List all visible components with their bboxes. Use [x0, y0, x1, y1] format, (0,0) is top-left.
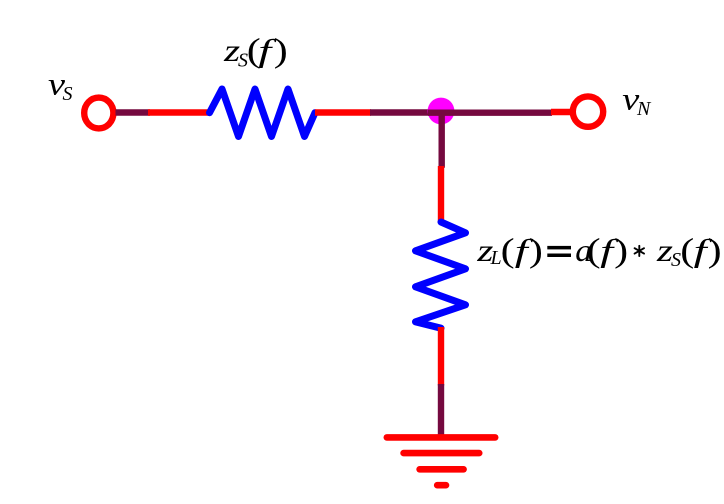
- wire (red stub to vN terminal): [551, 109, 571, 115]
- svg-text:S: S: [63, 83, 73, 105]
- resistor zS: [210, 89, 316, 137]
- svg-text:(: (: [587, 233, 601, 270]
- wire (red segment below resistor zL): [438, 327, 444, 386]
- terminal vS (source terminal circle): [84, 98, 113, 129]
- node junction dot: [428, 98, 455, 125]
- terminal vN (output terminal circle): [573, 96, 603, 126]
- wire (maroon segment to ground): [438, 384, 444, 435]
- svg-text:): ): [274, 32, 288, 69]
- resistor zL: [416, 222, 466, 328]
- svg-text:): ): [529, 233, 543, 270]
- wire (red segment above resistor zL): [438, 166, 444, 223]
- node label vS: [48, 66, 73, 106]
- label zL(f) = a(f) * zS(f): [476, 232, 722, 271]
- svg-text:): ): [708, 233, 722, 270]
- svg-text:): ): [614, 233, 628, 270]
- ground: [387, 437, 495, 485]
- svg-text:(: (: [501, 233, 515, 270]
- wire (maroon segment into node): [370, 109, 430, 115]
- wire (red segment to resistor zS): [148, 109, 211, 115]
- wire (red segment from resistor zS): [315, 109, 371, 115]
- label zS(f): [223, 32, 288, 72]
- wire (maroon segment from vS terminal): [116, 109, 151, 115]
- svg-text:N: N: [636, 98, 652, 120]
- svg-text:(: (: [680, 233, 694, 270]
- node label vN: [622, 81, 652, 121]
- wire (maroon elbow: node to right and down): [428, 110, 552, 168]
